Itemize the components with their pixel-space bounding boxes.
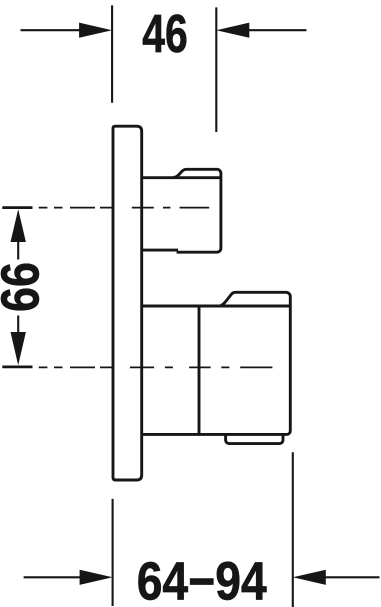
dim 46 right extension line [215, 7, 217, 132]
top handle body top line [142, 176, 221, 179]
svg-text:46: 46 [142, 4, 188, 64]
bottom handle tab [226, 434, 283, 443]
bottom handle body top line [142, 305, 291, 308]
dim 66 line lower [17, 316, 19, 333]
dim 64-94 left arrow [80, 570, 113, 585]
dim 66 line upper [17, 242, 19, 260]
top handle body bottom line [142, 249, 178, 252]
dim 66 up arrow [11, 209, 26, 242]
dim 46 right arrow [216, 23, 249, 38]
dim 46 left extension line [111, 5, 113, 102]
svg-text:64−94: 64−94 [137, 551, 267, 607]
dim 64-94 right arrow [293, 570, 326, 585]
bottom centerline tick [2, 366, 32, 369]
svg-text:66: 66 [0, 262, 51, 312]
wall plate [113, 126, 142, 480]
top centerline tick [2, 206, 32, 209]
top handle cap outline [174, 169, 221, 252]
dim 64-94 right extension line [292, 452, 294, 607]
dim 64-94 left extension line [112, 499, 114, 606]
dim 66 down arrow [11, 332, 26, 365]
bottom handle outline (knob + base bottom) [142, 292, 291, 434]
dim 64-94 right line [326, 576, 380, 578]
dim 46 right line [249, 29, 307, 31]
dim 64-94 left line [24, 576, 80, 578]
dim 46 left line [21, 29, 81, 31]
dim 46 left arrow [79, 23, 112, 38]
bottom handle joint line [198, 305, 201, 434]
top centerline dashes [39, 207, 210, 209]
bottom centerline dashes [39, 366, 273, 368]
